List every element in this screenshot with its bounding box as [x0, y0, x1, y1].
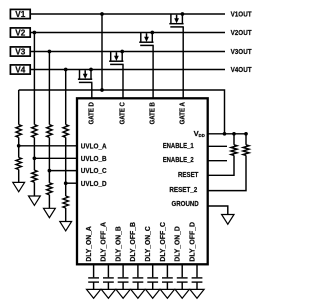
svg-text:UVLO_B: UVLO_B — [81, 154, 107, 163]
wire gate lead of Q3 to IC pin — [122, 64, 124, 99]
resistor R1 (UVLO_A divider top) — [16, 125, 21, 138]
svg-text:V2OUT: V2OUT — [231, 28, 252, 37]
svg-text:V2: V2 — [15, 28, 26, 37]
wire gate lead of Q4 to IC pin — [91, 82, 93, 99]
resistor R6 (UVLO_C divider bottom) — [47, 183, 52, 195]
wire capacitor C2 to ground — [107, 282, 109, 289]
node pullup R10 junction — [244, 132, 248, 136]
capacitor C7 — [177, 278, 188, 282]
resistor R3 (UVLO_B divider top) — [32, 125, 37, 138]
node junction on V3 rail for divider 3 — [48, 50, 52, 54]
wire RESET_2 pin to pullup R10 — [208, 155, 246, 190]
resistor R5 (UVLO_C divider top) — [47, 125, 52, 138]
wire gate lead of Q2 to IC pin — [152, 45, 154, 99]
wire divider 3 lower lead — [48, 195, 50, 209]
wire capacitor C3 to ground — [122, 282, 124, 289]
wire DLY_ON_B pin to capacitor C3 — [122, 264, 124, 277]
wire V1 rail to V1OUT — [30, 13, 225, 15]
svg-text:GATE B: GATE B — [149, 102, 157, 124]
wire V2 rail to V2OUT — [30, 32, 225, 34]
wire capacitor C1 to ground — [93, 282, 95, 289]
wire DLY_OFF_A pin to capacitor C2 — [107, 264, 109, 277]
ground below C6 — [160, 289, 174, 298]
node junction on V2 rail for divider 2 — [33, 31, 37, 35]
wire divider 4 lower lead — [65, 208, 67, 222]
wire tap to UVLO_D pin — [66, 182, 78, 184]
transistor Q1 (N-FET for V1) — [169, 12, 184, 27]
capacitor C3 — [118, 278, 129, 282]
svg-text:GROUND: GROUND — [172, 200, 199, 208]
wire RESET pin to pullup R9 — [208, 155, 234, 175]
wire divider 4 upper lead — [65, 70, 67, 125]
svg-text:DLY_OFF_B: DLY_OFF_B — [129, 222, 137, 262]
svg-text:UVLO_A: UVLO_A — [81, 141, 107, 150]
ground below C3 — [116, 289, 130, 298]
wire tap to UVLO_C pin — [49, 170, 77, 172]
ground divider 2 — [29, 196, 41, 205]
wire divider 2 middle lead — [33, 137, 35, 170]
input terminal box V2 — [10, 28, 30, 37]
wire capacitor C4 to ground — [137, 282, 139, 289]
wire DLY_OFF_D pin to capacitor C8 — [196, 264, 198, 277]
svg-text:V1: V1 — [15, 10, 26, 19]
ground below C8 — [190, 289, 204, 298]
node divider 3 tap junction — [48, 169, 52, 173]
wire divider 1 lower lead — [18, 170, 20, 183]
ground divider 4 — [60, 222, 72, 231]
transistor Q3 (N-FET for V3) — [109, 50, 124, 65]
wire V1 drop down — [101, 14, 103, 90]
wire V4 rail to V4OUT — [30, 69, 225, 71]
wire V3 rail to V3OUT — [30, 51, 225, 53]
wire DLY_ON_D pin to capacitor C7 — [181, 264, 183, 277]
svg-text:UVLO_C: UVLO_C — [81, 166, 107, 175]
transistor Q2 (N-FET for V2) — [139, 31, 154, 46]
svg-text:DLY_ON_A: DLY_ON_A — [85, 226, 93, 261]
wire divider 3 upper lead — [48, 52, 50, 125]
wire tap to UVLO_B pin — [34, 157, 77, 159]
svg-text:DLY_OFF_C: DLY_OFF_C — [159, 222, 167, 262]
input terminal box V4 — [10, 65, 30, 74]
ground below C5 — [146, 289, 160, 298]
capacitor C4 — [133, 278, 144, 282]
wire divider 4 middle lead — [65, 137, 67, 196]
node divider 1 tap junction — [17, 144, 21, 148]
svg-text:DLY_ON_C: DLY_ON_C — [144, 226, 152, 261]
input terminal box V3 — [10, 47, 30, 56]
node VDD feed junction — [223, 132, 227, 136]
svg-text:V3OUT: V3OUT — [231, 47, 252, 56]
wire DLY_OFF_B pin to capacitor C4 — [137, 264, 139, 277]
wire divider 1 middle lead — [18, 137, 20, 157]
svg-text:UVLO_D: UVLO_D — [81, 179, 107, 188]
wire DLY_OFF_C pin to capacitor C6 — [166, 264, 168, 277]
wire gate lead of Q1 to IC pin — [182, 27, 184, 99]
node junction on V4 rail for divider 4 — [64, 68, 68, 72]
wire capacitor C6 to ground — [166, 282, 168, 289]
svg-text:V1OUT: V1OUT — [231, 10, 252, 19]
svg-text:DLY_ON_D: DLY_ON_D — [174, 226, 182, 261]
resistor R8 (UVLO_D divider bottom) — [63, 196, 68, 208]
wire VDD pin line — [208, 133, 246, 135]
svg-text:RESET: RESET — [178, 171, 199, 179]
svg-text:RESET_2: RESET_2 — [169, 186, 197, 194]
node divider 4 tap junction — [64, 181, 68, 185]
capacitor C6 — [162, 278, 173, 282]
node pullup R9 junction — [232, 132, 236, 136]
svg-text:V4: V4 — [15, 65, 26, 74]
svg-text:GATE C: GATE C — [119, 102, 127, 124]
svg-text:GATE D: GATE D — [87, 102, 95, 124]
svg-text:V3: V3 — [15, 47, 26, 56]
wire capacitor C7 to ground — [181, 282, 183, 289]
ground divider 1 — [13, 182, 25, 191]
ground GROUND pin symbol — [222, 215, 234, 225]
IC U1 quad voltage sequencer body — [77, 98, 208, 264]
node junction on V1 rail — [100, 12, 104, 16]
wire ENABLE_1 stub — [208, 145, 227, 147]
capacitor C5 — [147, 278, 158, 282]
ground below C2 — [101, 289, 115, 298]
wire tap to UVLO_A pin — [19, 145, 78, 147]
resistor R10 (RESET_2 pullup) — [245, 134, 247, 145]
node junction of V1 drop on horizontal VDD feed wire — [100, 88, 104, 92]
svg-text:DLY_OFF_A: DLY_OFF_A — [100, 222, 108, 262]
resistor R4 (UVLO_B divider bottom) — [32, 170, 37, 182]
wire horizontal VDD feed (V1 to VDD pin and divider 1) — [19, 90, 225, 134]
svg-text:ENABLE_1: ENABLE_1 — [163, 142, 194, 150]
wire DLY_ON_C pin to capacitor C5 — [152, 264, 154, 277]
wire divider 2 lower lead — [33, 182, 35, 196]
ground below C1 — [87, 289, 101, 298]
wire divider 3 middle lead — [48, 137, 50, 182]
ground below C4 — [131, 289, 145, 298]
wire DLY_ON_A pin to capacitor C1 — [93, 264, 95, 277]
svg-text:V4OUT: V4OUT — [231, 65, 252, 74]
wire GROUND pin — [208, 206, 228, 215]
capacitor C1 — [88, 278, 99, 282]
wire capacitor C5 to ground — [152, 282, 154, 289]
resistor R9 (RESET pullup) — [233, 134, 235, 145]
ground below C7 — [175, 289, 189, 298]
svg-text:DLY_OFF_D: DLY_OFF_D — [188, 222, 196, 262]
capacitor C8 — [192, 278, 203, 282]
wire divider 2 upper lead — [33, 33, 35, 125]
node divider 2 tap junction — [33, 156, 37, 160]
resistor R7 (UVLO_D divider top) — [63, 125, 68, 138]
transistor Q4 (N-FET for V4) — [78, 68, 93, 83]
wire divider 1 upper lead — [18, 90, 20, 125]
svg-text:GATE A: GATE A — [179, 102, 187, 124]
svg-text:DLY_ON_B: DLY_ON_B — [114, 226, 122, 261]
wire ENABLE_2 stub — [208, 160, 227, 162]
input terminal box V1 — [10, 9, 30, 18]
svg-text:ENABLE_2: ENABLE_2 — [163, 156, 194, 164]
capacitor C2 — [103, 278, 114, 282]
wire capacitor C8 to ground — [196, 282, 198, 289]
ground divider 3 — [44, 208, 56, 217]
resistor R2 (UVLO_A divider bottom) — [16, 158, 21, 170]
